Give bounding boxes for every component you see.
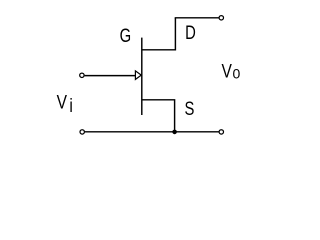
svg-text:S: S	[185, 98, 195, 119]
svg-text:V: V	[57, 91, 68, 113]
svg-text:V: V	[222, 60, 233, 82]
svg-text:0: 0	[233, 66, 241, 82]
svg-text:G: G	[120, 25, 132, 46]
svg-text:i: i	[69, 95, 72, 117]
svg-text:D: D	[185, 22, 196, 43]
